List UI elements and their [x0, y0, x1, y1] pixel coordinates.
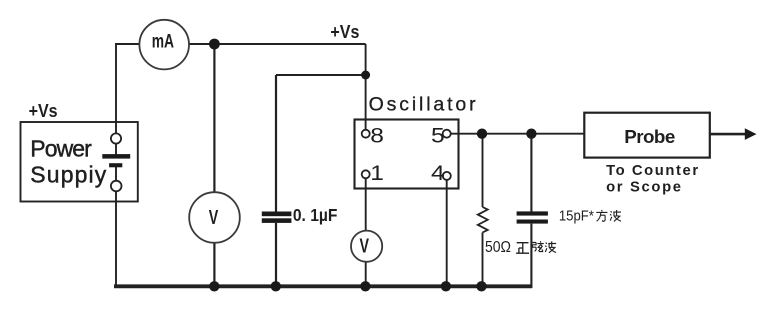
wire capacitor C1 vertical upper	[275, 75, 277, 212]
wire voltmeter V1 vertical	[213, 44, 215, 288]
junction dot pin5-cap2	[526, 129, 536, 139]
ammeter mA circle	[139, 20, 189, 70]
wire resistor R1 lower	[482, 233, 484, 289]
junction dot bus-pin4	[441, 281, 451, 291]
svg-text:V: V	[359, 236, 369, 258]
svg-text:Suppiy: Suppiy	[30, 161, 107, 187]
junction dot bus-R1	[476, 281, 486, 291]
capacitor C2 plate bottom	[517, 220, 548, 224]
svg-text:8: 8	[370, 123, 384, 147]
wire right vertical from rail to pin 8	[365, 44, 367, 134]
junction dot cap branch	[361, 71, 370, 80]
wire capacitor C2 lower	[530, 224, 532, 288]
output arrow line	[710, 133, 747, 136]
oscillator pin 4 circle	[443, 172, 451, 180]
svg-text:4: 4	[431, 161, 445, 185]
resistor R1 zigzag	[478, 207, 488, 233]
wire oscillator pin 5 to probe	[447, 133, 585, 135]
svg-text:+Vs: +Vs	[29, 101, 58, 121]
battery plate long	[102, 154, 130, 159]
output arrowhead	[745, 128, 757, 140]
svg-text:1: 1	[370, 161, 384, 185]
svg-text:50Ω: 50Ω	[485, 239, 511, 256]
wire oscillator pin 1 to bus	[365, 174, 367, 288]
power supply box	[21, 122, 138, 202]
junction dot bus-pin1	[360, 281, 370, 291]
capacitor C2 plate top	[517, 211, 548, 215]
oscillator pin 1 circle	[362, 170, 370, 178]
CJK fang (square label char1)	[596, 210, 607, 221]
junction dot bus-V1	[209, 281, 219, 291]
junction dot rail-V1	[209, 39, 220, 50]
oscillator pin 5 circle	[443, 130, 451, 138]
svg-text:+Vs: +Vs	[330, 22, 359, 42]
wire battery lower vertical to bus	[115, 165, 117, 287]
svg-text:0. 1µF: 0. 1µF	[293, 205, 338, 225]
capacitor C1 plate top	[262, 212, 292, 217]
voltmeter V1 circle	[189, 192, 240, 243]
wire oscillator pin 4 to bus	[446, 178, 448, 289]
wire left vertical from rail to battery	[115, 44, 117, 156]
svg-text:or Scope: or Scope	[606, 179, 681, 195]
battery terminal top	[111, 133, 121, 143]
svg-text:V: V	[209, 207, 219, 229]
svg-text:Probe: Probe	[624, 126, 675, 147]
wire capacitor C1 vertical lower	[275, 223, 277, 288]
wire capacitor top branch horizontal	[276, 74, 366, 76]
svg-text:15pF*: 15pF*	[559, 208, 594, 224]
svg-text:Power: Power	[30, 135, 92, 161]
probe box	[584, 113, 710, 158]
junction dot pin5-resistor	[477, 129, 487, 139]
oscillator box U1	[355, 120, 459, 189]
junction dot bus-C1	[271, 281, 281, 291]
capacitor C1 plate bottom	[262, 218, 292, 223]
wire resistor R1 upper	[482, 134, 484, 207]
battery plate short	[109, 163, 122, 167]
CJK bo (square label char2)	[610, 210, 621, 221]
wire bottom ground bus	[114, 284, 532, 288]
wire capacitor C2 upper	[530, 134, 532, 212]
svg-text:To Counter: To Counter	[606, 163, 698, 179]
CJK bo (sine label char3)	[545, 241, 556, 252]
battery terminal bottom	[111, 181, 122, 192]
CJK zheng (sine label char1)	[516, 243, 529, 254]
svg-text:mA: mA	[152, 32, 174, 53]
voltmeter V2 circle	[351, 231, 382, 262]
oscillator pin 8 circle	[362, 130, 370, 138]
CJK xian (sine label char2)	[532, 241, 544, 251]
svg-text:5: 5	[431, 123, 445, 147]
wire top horizontal +Vs rail	[115, 43, 366, 45]
